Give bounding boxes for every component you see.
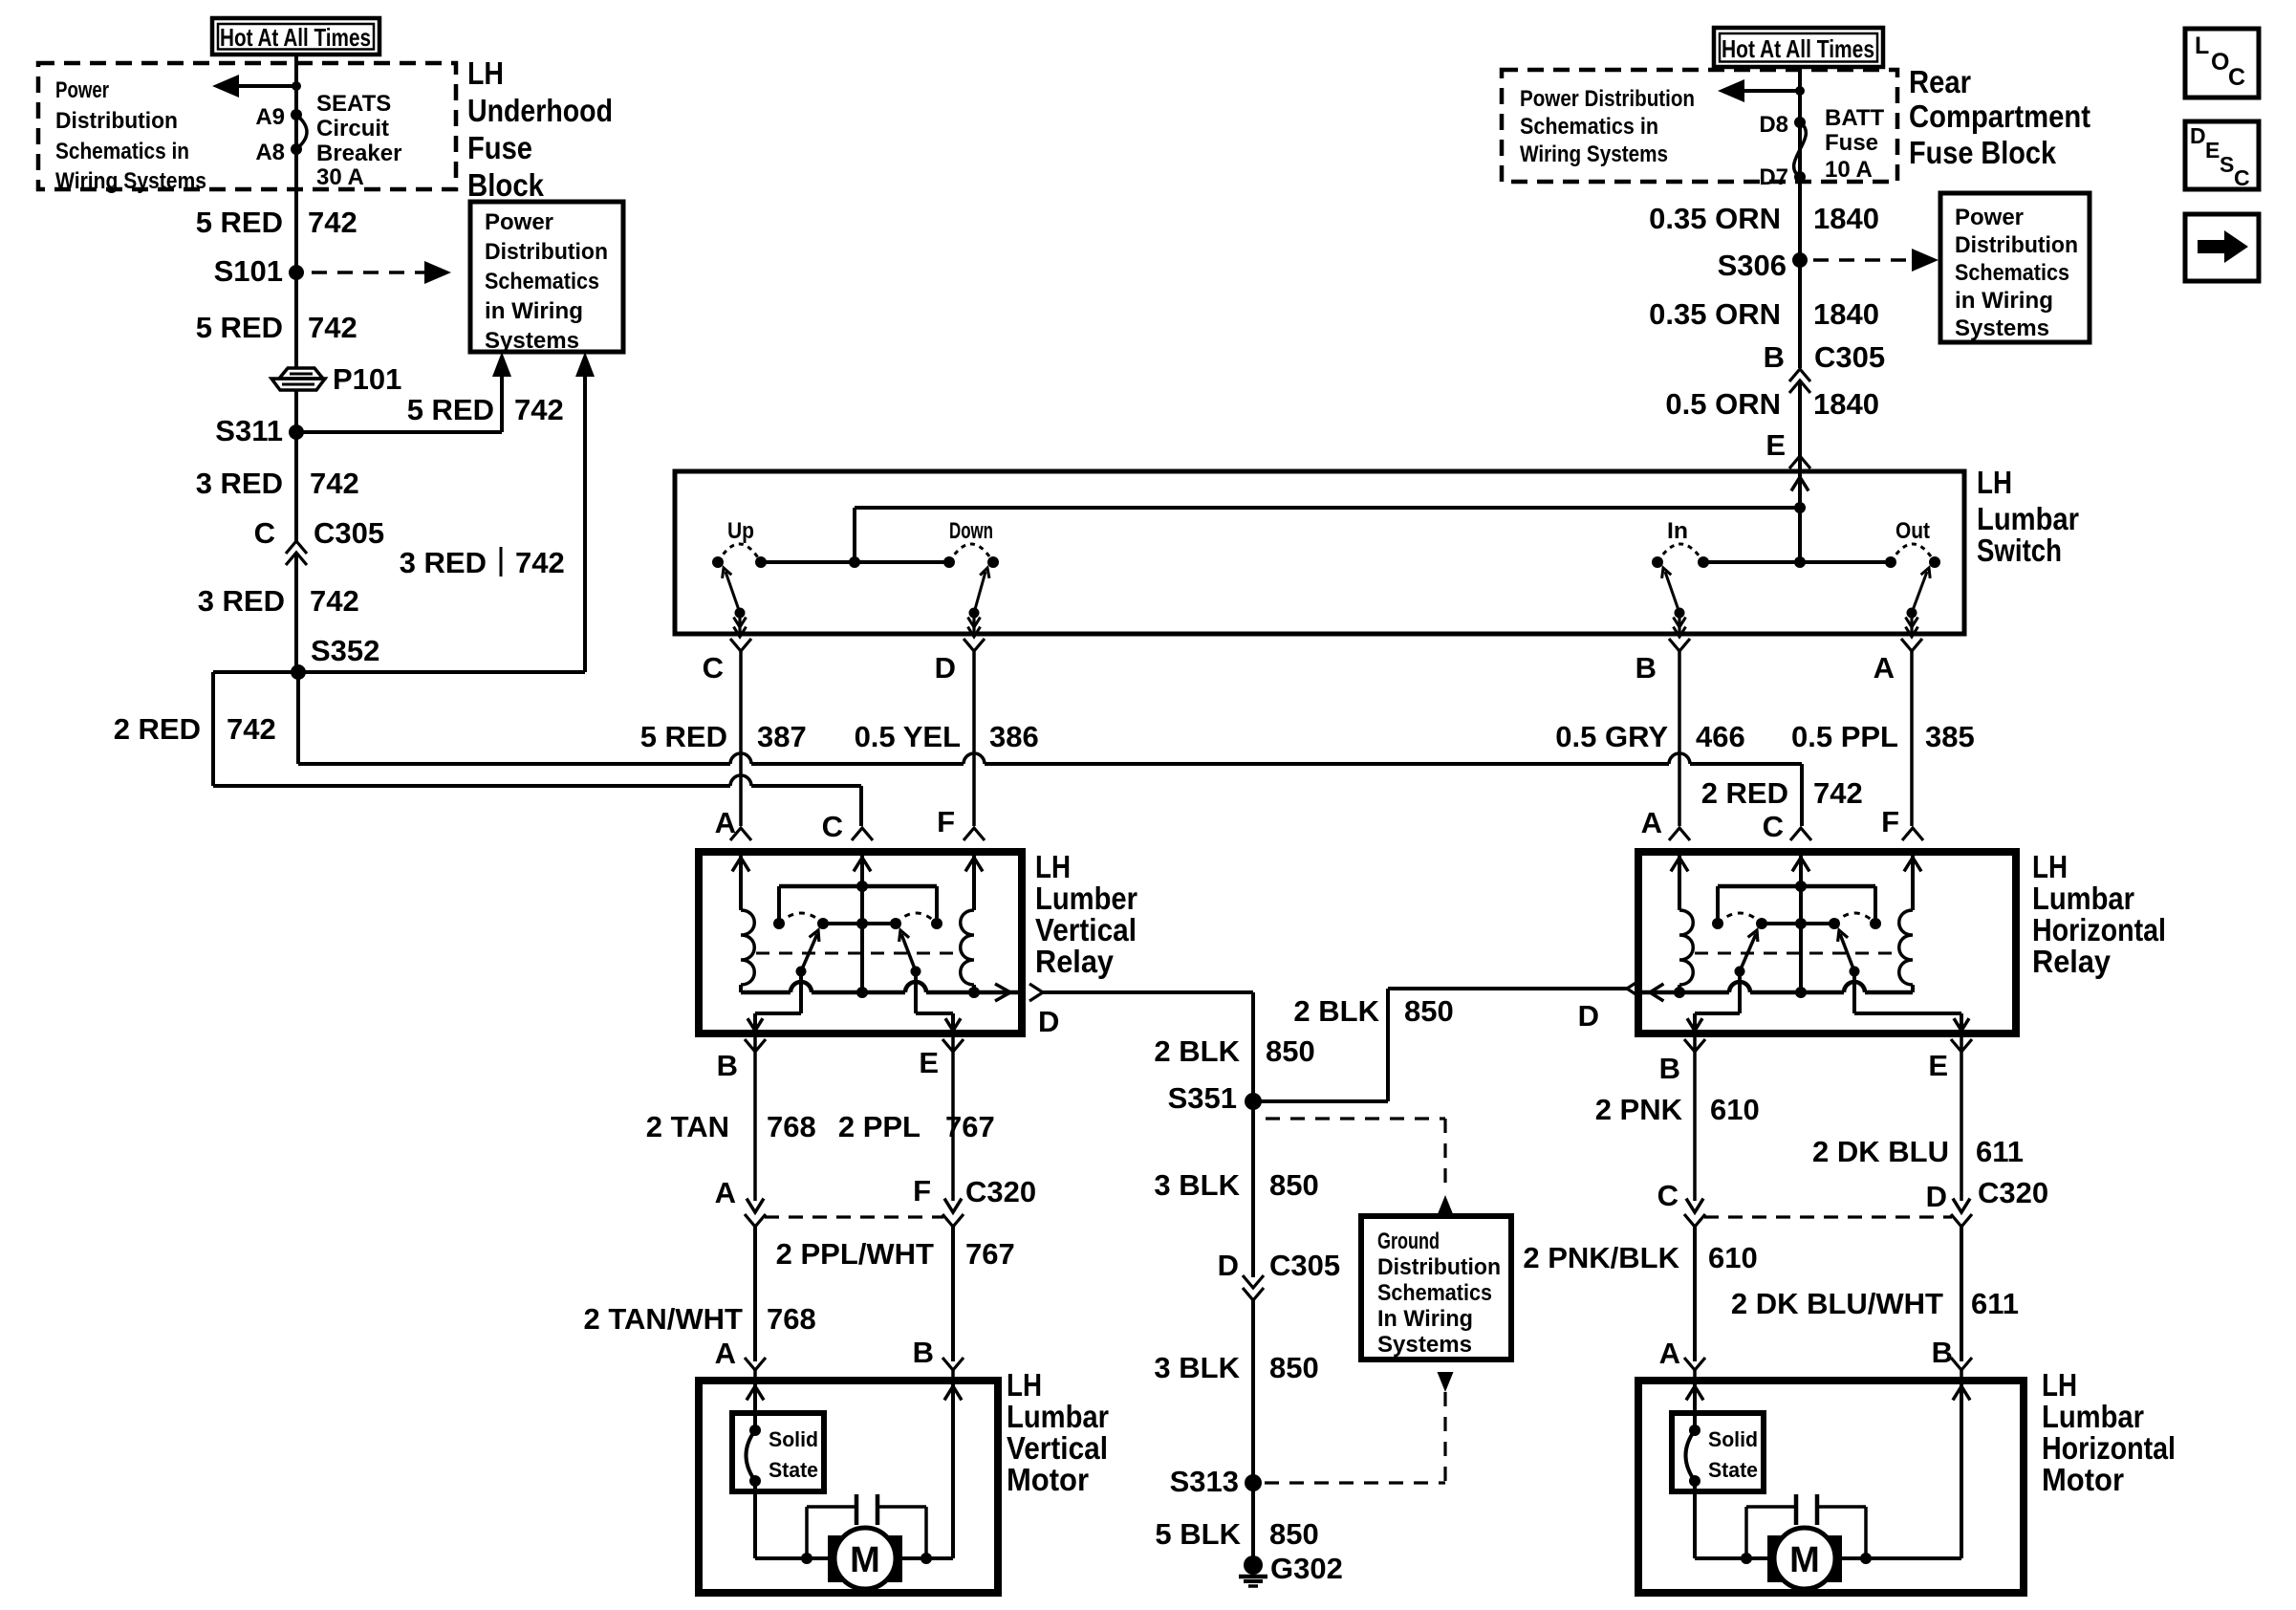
svg-text:D: D [1926, 1180, 1947, 1213]
svg-text:S351: S351 [1168, 1081, 1237, 1115]
svg-text:Switch: Switch [1977, 533, 2062, 568]
svg-text:Out: Out [1895, 518, 1930, 544]
svg-text:A9: A9 [255, 104, 285, 130]
svg-text:G302: G302 [1270, 1552, 1343, 1585]
svg-text:LH: LH [2032, 849, 2068, 884]
svg-text:611: 611 [1971, 1287, 2019, 1320]
svg-text:0.5 PPL: 0.5 PPL [1791, 720, 1898, 753]
svg-text:Schematics: Schematics [1955, 260, 2069, 286]
svg-text:742: 742 [308, 311, 357, 344]
svg-text:2 PNK: 2 PNK [1595, 1093, 1683, 1126]
svg-text:386: 386 [989, 720, 1039, 753]
svg-text:Up: Up [727, 518, 754, 544]
svg-text:C: C [1763, 810, 1784, 843]
svg-text:B: B [913, 1336, 934, 1369]
svg-text:Schematics in: Schematics in [55, 139, 189, 164]
svg-text:Wiring Systems: Wiring Systems [55, 168, 206, 194]
svg-text:Distribution: Distribution [55, 108, 178, 134]
svg-text:S306: S306 [1718, 249, 1787, 282]
svg-text:Systems: Systems [1377, 1332, 1472, 1358]
svg-text:3 RED: 3 RED [400, 546, 487, 579]
svg-text:742: 742 [308, 206, 357, 239]
svg-text:1840: 1840 [1813, 297, 1879, 331]
svg-text:850: 850 [1404, 994, 1454, 1028]
svg-text:C320: C320 [1978, 1176, 2048, 1209]
svg-text:LH: LH [2042, 1367, 2077, 1403]
svg-text:D: D [2190, 123, 2206, 148]
svg-text:F: F [937, 805, 955, 838]
svg-text:B: B [717, 1049, 738, 1082]
svg-text:LH: LH [1007, 1367, 1042, 1403]
svg-text:610: 610 [1710, 1093, 1760, 1126]
svg-text:3 BLK: 3 BLK [1154, 1351, 1240, 1384]
svg-text:F: F [1881, 805, 1899, 838]
svg-text:850: 850 [1269, 1168, 1319, 1202]
svg-text:1840: 1840 [1813, 202, 1879, 235]
svg-text:Vertical: Vertical [1007, 1430, 1108, 1466]
svg-text:Lumbar: Lumbar [1977, 501, 2079, 536]
svg-text:Power: Power [485, 209, 553, 235]
svg-text:2 RED: 2 RED [114, 712, 201, 746]
svg-text:Motor: Motor [1007, 1462, 1089, 1497]
svg-text:LH: LH [1977, 465, 2012, 500]
svg-text:Schematics: Schematics [1377, 1280, 1492, 1306]
svg-text:767: 767 [965, 1237, 1015, 1271]
svg-text:Fuse: Fuse [467, 130, 532, 165]
svg-text:Lumbar: Lumbar [1007, 1399, 1109, 1434]
svg-text:Underhood: Underhood [467, 93, 613, 128]
svg-text:In: In [1667, 518, 1688, 544]
svg-text:Power: Power [55, 77, 109, 103]
svg-text:2 RED: 2 RED [1701, 776, 1788, 810]
svg-text:Rear: Rear [1909, 64, 1971, 99]
svg-text:C: C [2228, 64, 2245, 91]
svg-text:742: 742 [515, 546, 565, 579]
svg-text:C: C [1657, 1179, 1679, 1212]
svg-text:State: State [769, 1458, 818, 1482]
svg-text:30 A: 30 A [316, 164, 364, 190]
svg-text:Schematics: Schematics [485, 269, 599, 294]
svg-text:E: E [2205, 138, 2220, 163]
svg-text:LH: LH [1035, 849, 1071, 884]
svg-text:Distribution: Distribution [1955, 232, 2078, 258]
svg-text:In Wiring: In Wiring [1377, 1306, 1473, 1332]
svg-text:E: E [1928, 1049, 1948, 1082]
svg-text:S352: S352 [311, 634, 379, 667]
svg-text:Lumbar: Lumbar [2032, 881, 2134, 916]
svg-text:C320: C320 [965, 1175, 1036, 1208]
svg-text:0.5 YEL: 0.5 YEL [855, 720, 961, 753]
svg-text:850: 850 [1269, 1351, 1319, 1384]
svg-text:M: M [850, 1540, 880, 1580]
svg-text:850: 850 [1269, 1517, 1319, 1551]
svg-text:Power Distribution: Power Distribution [1520, 86, 1695, 112]
svg-text:C: C [254, 516, 275, 550]
svg-text:Relay: Relay [1035, 944, 1115, 979]
svg-text:A: A [715, 806, 736, 839]
svg-text:D: D [1578, 999, 1599, 1033]
svg-text:611: 611 [1976, 1135, 2024, 1168]
svg-text:P101: P101 [333, 362, 401, 396]
svg-text:C305: C305 [314, 516, 384, 550]
svg-text:State: State [1708, 1458, 1758, 1482]
svg-text:2 TAN: 2 TAN [646, 1110, 729, 1143]
svg-text:5 RED: 5 RED [196, 311, 283, 344]
svg-text:Distribution: Distribution [485, 239, 608, 265]
svg-text:BATT: BATT [1825, 105, 1885, 131]
svg-text:A: A [715, 1176, 736, 1209]
svg-text:M: M [1789, 1540, 1820, 1580]
svg-text:466: 466 [1696, 720, 1745, 753]
svg-text:LH: LH [467, 55, 504, 91]
svg-text:742: 742 [1813, 776, 1863, 810]
svg-text:768: 768 [767, 1302, 816, 1336]
svg-text:SEATS: SEATS [316, 91, 391, 117]
svg-text:Motor: Motor [2042, 1462, 2124, 1497]
svg-text:O: O [2211, 49, 2229, 76]
svg-text:C: C [703, 651, 724, 685]
svg-text:Ground: Ground [1377, 1229, 1440, 1254]
svg-text:F: F [913, 1174, 931, 1207]
svg-text:B: B [1659, 1052, 1680, 1085]
svg-text:D7: D7 [1759, 164, 1788, 190]
svg-text:2 PPL: 2 PPL [838, 1110, 921, 1143]
svg-text:2 DK BLU/WHT: 2 DK BLU/WHT [1731, 1287, 1943, 1320]
svg-text:D: D [1218, 1249, 1239, 1282]
svg-text:742: 742 [227, 712, 276, 746]
svg-text:C305: C305 [1269, 1249, 1340, 1282]
svg-text:742: 742 [514, 393, 564, 426]
svg-text:B: B [1764, 340, 1785, 374]
svg-text:5 BLK: 5 BLK [1155, 1517, 1241, 1551]
svg-text:Fuse Block: Fuse Block [1909, 135, 2057, 170]
svg-text:2 TAN/WHT: 2 TAN/WHT [584, 1302, 744, 1336]
svg-text:0.5 GRY: 0.5 GRY [1555, 720, 1668, 753]
svg-text:S313: S313 [1170, 1465, 1239, 1498]
svg-text:5 RED: 5 RED [640, 720, 727, 753]
svg-text:A: A [1641, 806, 1662, 839]
svg-text:2 DK BLU: 2 DK BLU [1812, 1135, 1949, 1168]
svg-text:A: A [715, 1337, 736, 1370]
svg-text:1840: 1840 [1813, 387, 1879, 421]
svg-text:5 RED: 5 RED [196, 206, 283, 239]
svg-text:Solid: Solid [769, 1427, 818, 1451]
svg-text:767: 767 [945, 1110, 995, 1143]
svg-text:Compartment: Compartment [1909, 98, 2090, 134]
svg-text:S101: S101 [214, 254, 283, 288]
svg-text:D: D [935, 651, 956, 685]
svg-text:3 BLK: 3 BLK [1154, 1168, 1240, 1202]
svg-text:850: 850 [1266, 1034, 1315, 1068]
svg-text:Vertical: Vertical [1035, 912, 1137, 947]
svg-text:E: E [919, 1046, 939, 1079]
svg-text:387: 387 [757, 720, 807, 753]
svg-text:2 PPL/WHT: 2 PPL/WHT [776, 1237, 934, 1271]
svg-text:Breaker: Breaker [316, 141, 401, 166]
svg-text:Distribution: Distribution [1377, 1254, 1501, 1280]
svg-text:768: 768 [767, 1110, 816, 1143]
svg-text:742: 742 [310, 467, 359, 500]
svg-text:Horizontal: Horizontal [2042, 1430, 2176, 1466]
svg-text:Circuit: Circuit [316, 116, 389, 141]
svg-text:Lumber: Lumber [1035, 881, 1137, 916]
svg-text:610: 610 [1708, 1241, 1758, 1274]
svg-text:Hot At All Times: Hot At All Times [220, 23, 371, 52]
svg-text:D8: D8 [1759, 112, 1788, 138]
svg-text:Block: Block [467, 167, 545, 203]
svg-text:B: B [1635, 651, 1657, 685]
svg-text:C: C [2234, 165, 2250, 190]
svg-text:0.35 ORN: 0.35 ORN [1649, 297, 1781, 331]
svg-text:A: A [1659, 1337, 1680, 1370]
svg-text:5 RED: 5 RED [407, 393, 494, 426]
svg-text:C305: C305 [1814, 340, 1885, 374]
svg-text:Fuse: Fuse [1825, 130, 1878, 156]
svg-text:A: A [1874, 651, 1895, 685]
svg-text:B: B [1932, 1336, 1953, 1369]
svg-text:Schematics in: Schematics in [1520, 114, 1658, 140]
svg-text:Power: Power [1955, 205, 2024, 230]
svg-text:Relay: Relay [2032, 944, 2112, 979]
svg-text:A8: A8 [255, 140, 285, 165]
svg-text:in Wiring: in Wiring [1955, 288, 2053, 314]
svg-text:Systems: Systems [1955, 315, 2049, 341]
svg-text:0.35 ORN: 0.35 ORN [1649, 202, 1781, 235]
svg-text:D: D [1038, 1005, 1059, 1038]
svg-text:in Wiring: in Wiring [485, 298, 583, 324]
svg-text:Wiring Systems: Wiring Systems [1520, 141, 1668, 167]
svg-text:0.5 ORN: 0.5 ORN [1665, 387, 1781, 421]
svg-text:2 BLK: 2 BLK [1293, 994, 1379, 1028]
svg-text:385: 385 [1925, 720, 1975, 753]
svg-text:Horizontal: Horizontal [2032, 912, 2166, 947]
svg-text:742: 742 [310, 584, 359, 618]
svg-text:Lumbar: Lumbar [2042, 1399, 2144, 1434]
svg-text:3 RED: 3 RED [198, 584, 285, 618]
svg-text:S311: S311 [215, 414, 283, 447]
svg-text:Systems: Systems [485, 328, 579, 354]
svg-text:Hot At All Times: Hot At All Times [1722, 34, 1874, 63]
svg-text:2 BLK: 2 BLK [1154, 1034, 1240, 1068]
svg-text:S: S [2220, 152, 2234, 177]
svg-text:10 A: 10 A [1825, 157, 1873, 183]
svg-text:2 PNK/BLK: 2 PNK/BLK [1523, 1241, 1679, 1274]
svg-text:E: E [1765, 428, 1786, 462]
svg-text:C: C [822, 810, 843, 843]
svg-text:Down: Down [949, 518, 993, 544]
svg-text:L: L [2195, 33, 2209, 59]
svg-text:Solid: Solid [1708, 1427, 1758, 1451]
svg-text:3 RED: 3 RED [196, 467, 283, 500]
